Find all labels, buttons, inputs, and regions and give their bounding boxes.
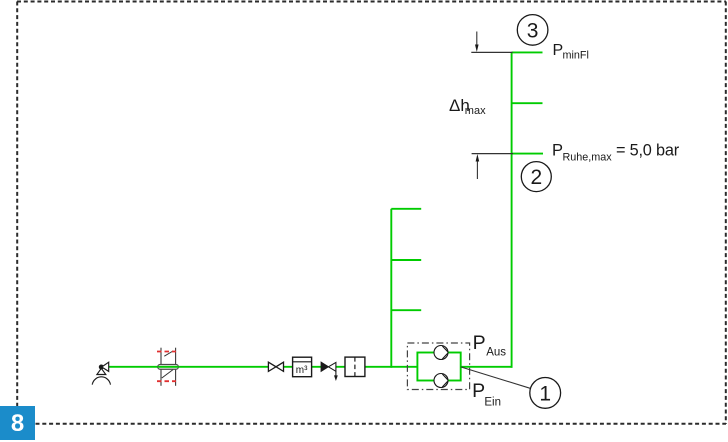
riser branch middle xyxy=(512,102,543,104)
label P_Ein xyxy=(472,380,501,408)
svg-text:3: 3 xyxy=(527,19,539,42)
svg-text:= 5,0 bar: = 5,0 bar xyxy=(616,142,680,160)
svg-text:P: P xyxy=(552,141,563,159)
check valve with drain xyxy=(321,362,338,381)
label P_Ruhe,max = 5,0 bar xyxy=(552,141,680,163)
callout circle 2 xyxy=(521,162,551,192)
label P_minFl xyxy=(553,42,589,62)
left riser branch 2 xyxy=(391,259,421,261)
left riser branch 3 xyxy=(391,309,421,311)
outlet pipe from pump unit to riser xyxy=(461,366,513,368)
svg-text:8: 8 xyxy=(11,410,24,437)
pressure boosting unit enclosure (dash-dot box) xyxy=(407,343,469,390)
filter xyxy=(345,357,365,376)
dimension arrow up (bottom) xyxy=(476,154,480,179)
left riser branch 1 xyxy=(391,208,421,210)
svg-text:Ruhe,max: Ruhe,max xyxy=(563,152,613,164)
pump parallel circuit piping xyxy=(417,353,460,381)
label dh_max xyxy=(449,96,486,117)
svg-text:2: 2 xyxy=(530,166,542,189)
left riser (building branch) xyxy=(390,209,392,368)
riser branch top (P_minFl) xyxy=(512,51,543,53)
svg-text:Aus: Aus xyxy=(486,346,506,358)
main supply pipe xyxy=(109,366,418,368)
svg-text:m³: m³ xyxy=(296,365,308,376)
leader line to callout 1 xyxy=(461,367,531,388)
riser branch at P_Ruhe level xyxy=(512,153,543,155)
callout circle 1 xyxy=(530,378,561,409)
svg-text:P: P xyxy=(472,380,485,402)
svg-text:max: max xyxy=(465,105,486,117)
shut-off valve xyxy=(268,362,283,371)
svg-text:P: P xyxy=(473,332,486,354)
pump P2 (bottom) xyxy=(434,374,448,388)
water meter m3 xyxy=(293,357,312,377)
wall penetration with sleeve xyxy=(157,348,178,386)
svg-text:1: 1 xyxy=(539,382,551,405)
riser pipe (right vertical) xyxy=(511,52,513,367)
callout circle 3 xyxy=(517,15,548,46)
label P_Aus xyxy=(473,332,507,359)
page number badge 8 xyxy=(0,406,35,440)
svg-text:Ein: Ein xyxy=(484,396,501,408)
dimension line at P_minFl level xyxy=(471,51,512,53)
dimension line at P_Ruhe level xyxy=(472,153,513,155)
svg-text:minFl: minFl xyxy=(563,49,589,61)
pump P1 (top) xyxy=(434,346,448,360)
supply connection (public main) xyxy=(92,362,110,384)
dimension arrow down (top) xyxy=(475,32,479,53)
